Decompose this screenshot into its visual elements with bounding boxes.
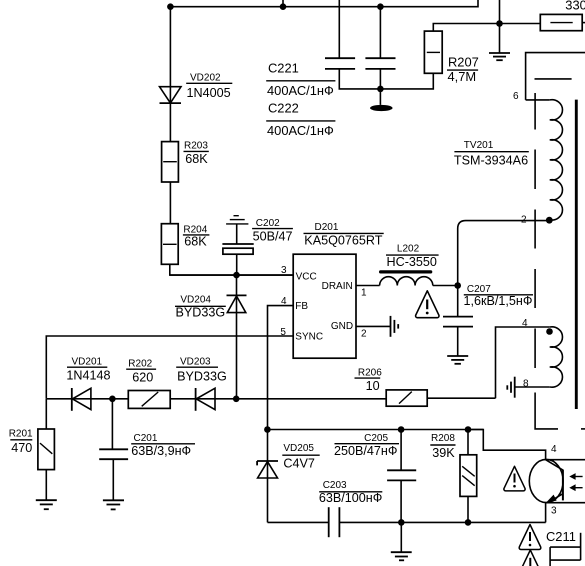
diode VD203 (196, 388, 215, 411)
svg-text:63В/3,9нФ: 63В/3,9нФ (131, 444, 191, 458)
svg-text:TSM-3934A6: TSM-3934A6 (454, 154, 528, 168)
wire C221 bottom to common (339, 69, 433, 89)
node junction dot top-left (167, 3, 174, 10)
svg-text:C201: C201 (134, 433, 158, 444)
svg-text:1N4005: 1N4005 (187, 86, 231, 100)
svg-text:3: 3 (551, 506, 557, 517)
transformer TV201 outline top (526, 53, 585, 100)
wire pin 8 (515, 386, 550, 388)
svg-text:R208: R208 (431, 433, 455, 444)
wire pin 6 (526, 99, 550, 101)
IC D201 box (293, 254, 356, 358)
capacitor C202 electrolytic (222, 244, 253, 254)
node primary dot pin2 (546, 217, 553, 224)
svg-text:VCC: VCC (296, 272, 317, 283)
wire R206 to pin4 (427, 397, 495, 399)
svg-text:1: 1 (361, 288, 367, 299)
ground symbol under C201 (103, 500, 124, 509)
node junction dot x=380 (377, 3, 384, 10)
svg-text:L202: L202 (397, 243, 420, 254)
wire FB pin4 (268, 306, 294, 430)
transformer inner line (535, 78, 572, 80)
capacitor C205 (387, 470, 416, 480)
wire pin1 DRAIN to L202 (356, 285, 380, 287)
svg-text:1N4148: 1N4148 (66, 369, 110, 383)
svg-text:C222: C222 (268, 101, 299, 116)
ground symbol under R201 (36, 500, 57, 509)
wire R201 to ground (45, 470, 47, 501)
ground blob hot (370, 105, 393, 111)
resistor R202 (128, 391, 170, 409)
ground symbol top-right (489, 53, 510, 60)
svg-text:C4V7: C4V7 (283, 456, 315, 470)
svg-text:BYD33G: BYD33G (177, 369, 227, 383)
svg-text:R202: R202 (128, 358, 152, 369)
wire opto collector feed (468, 430, 546, 460)
chassis symbol at GND pin (391, 316, 399, 337)
wire 330 to right edge (582, 22, 585, 24)
wire C201 to ground (112, 459, 114, 500)
wire collector line to right edge (546, 459, 585, 461)
node junction dot C205 bottom (398, 519, 405, 526)
svg-text:VD205: VD205 (283, 443, 314, 454)
transistor opto phototransistor circle (529, 459, 563, 502)
diode VD202 (160, 87, 182, 103)
svg-text:VD201: VD201 (72, 357, 103, 368)
resistor R203 (162, 142, 179, 182)
resistor R208 (460, 455, 477, 497)
ground symbol bottom (391, 552, 412, 560)
svg-text:250В/47нФ: 250В/47нФ (334, 444, 397, 458)
wire stub up at x=283 (282, 0, 284, 7)
wire C207 to ground (457, 327, 459, 356)
svg-text:R206: R206 (358, 367, 382, 378)
light arrow 1 (569, 473, 582, 480)
wire upper rail (267, 429, 483, 431)
wire VCC pin3 (170, 274, 293, 276)
wire emitter down (545, 503, 547, 523)
wire C205 bottom (400, 480, 402, 522)
svg-text:R201: R201 (9, 428, 33, 439)
wire SYNC pin5 (46, 336, 293, 399)
wire C222 top (379, 7, 381, 59)
transformer TV201 primary winding (550, 100, 563, 220)
svg-text:4,7M: 4,7M (448, 69, 477, 84)
wire right edge stub (581, 428, 585, 430)
svg-text:R203: R203 (184, 141, 208, 152)
resistor R206 (386, 390, 427, 406)
resistor R201 (38, 429, 55, 470)
svg-text:TV201: TV201 (464, 140, 494, 151)
wire pin 4 (496, 327, 550, 398)
wire emitter to right edge (546, 502, 585, 504)
svg-text:C221: C221 (268, 61, 299, 76)
wire R203 to R204 (169, 182, 171, 224)
resistor 330 (540, 14, 582, 30)
wire lower rail to C203 (268, 521, 329, 523)
wire bottom rail left (46, 398, 128, 400)
wire pin 2 (458, 221, 550, 286)
node junction dot VD205 top (264, 426, 271, 433)
wire R208 top (467, 430, 469, 455)
capacitor C211 outline (550, 533, 581, 566)
opto collector slant (546, 460, 563, 470)
transformer core dashed line (534, 93, 536, 368)
svg-text:10: 10 (366, 379, 380, 393)
svg-text:BYD33G: BYD33G (176, 306, 226, 320)
svg-text:50B/47: 50B/47 (253, 230, 293, 244)
warning triangle bottom 2 (519, 550, 541, 566)
resistor R207 (424, 31, 442, 73)
svg-text:68K: 68K (184, 234, 207, 248)
node junction dot FB rail (233, 396, 240, 403)
resistor R204 (161, 224, 178, 265)
wire core bottom L (535, 393, 558, 429)
svg-text:2: 2 (361, 328, 367, 339)
wire top rail (170, 0, 478, 7)
wire GND pin2 (356, 325, 391, 327)
svg-text:39K: 39K (432, 446, 455, 460)
warning triangle near L202 (416, 291, 439, 318)
svg-text:C202: C202 (256, 218, 280, 229)
svg-text:SYNC: SYNC (295, 331, 323, 342)
light arrow 2 (569, 484, 582, 491)
svg-text:FB: FB (295, 301, 308, 312)
capacitor C207 (443, 317, 473, 327)
wire C202 top (236, 224, 238, 244)
capacitor C203 (329, 507, 340, 537)
svg-text:400АС/1нФ: 400АС/1нФ (267, 83, 334, 98)
wire R208 bottom (467, 496, 469, 522)
wire C201 drop (111, 399, 113, 450)
svg-text:R207: R207 (448, 54, 479, 69)
transformer TV201 secondary winding (550, 327, 563, 387)
capacitor C201 (99, 449, 128, 459)
svg-text:VD204: VD204 (180, 295, 211, 306)
svg-text:KA5Q0765RT: KA5Q0765RT (304, 233, 382, 247)
svg-text:3: 3 (281, 265, 287, 276)
warning triangle bottom 1 (519, 525, 541, 550)
svg-text:DRAIN: DRAIN (322, 281, 353, 292)
wire junction down to ground (499, 24, 501, 54)
svg-text:68K: 68K (185, 152, 208, 166)
wire node to C207 (457, 286, 459, 317)
node secondary polarity dot (546, 328, 553, 335)
svg-text:D201: D201 (315, 222, 339, 233)
wire C221 vertical (338, 0, 340, 58)
svg-text:6: 6 (513, 91, 519, 102)
chassis marks above C202 (226, 216, 248, 224)
svg-text:VD203: VD203 (180, 357, 211, 368)
node junction dot x=283 (280, 3, 287, 10)
svg-text:HC-3550: HC-3550 (387, 255, 437, 269)
wire VD204 branch (236, 275, 238, 399)
node junction dot VCC rail (233, 272, 240, 279)
node junction dot R208 bottom (465, 519, 472, 526)
svg-text:VD202: VD202 (190, 73, 221, 84)
node junction dot C22x common (377, 86, 384, 93)
inductor L202 (380, 277, 433, 286)
wire to bottom ground (400, 522, 402, 552)
wire C205 top (400, 430, 402, 471)
svg-text:4: 4 (551, 444, 557, 455)
ground symbol under C207 (447, 356, 468, 364)
svg-text:63В/100нФ: 63В/100нФ (319, 491, 382, 505)
svg-text:470: 470 (11, 441, 32, 455)
capacitor C221 (325, 58, 355, 69)
wire VD205 top (267, 430, 269, 523)
diode VD205 zener (257, 461, 278, 478)
opto base bar (562, 470, 564, 501)
wire L202 to node (433, 285, 458, 287)
node junction dot drain net (454, 282, 461, 289)
transformer screen thick line (575, 100, 578, 409)
node junction dot C201 tap (109, 396, 116, 403)
capacitor C222 (365, 58, 395, 69)
node junction dot C205 top (398, 426, 405, 433)
svg-text:330: 330 (565, 0, 585, 12)
L202 thick bar (379, 270, 432, 273)
wire R207 top (433, 24, 540, 32)
wire C202 bottom (236, 254, 238, 275)
svg-text:400АС/1нФ: 400АС/1нФ (267, 123, 334, 138)
node junction dot x=499 (496, 20, 503, 27)
wire lower rail right (339, 521, 545, 523)
diode VD201 (72, 388, 91, 411)
opto emitter slant with arrow (546, 494, 563, 503)
wire up from junction (499, 0, 501, 24)
wire R201 drop (45, 399, 47, 429)
svg-text:GND: GND (331, 321, 353, 332)
svg-text:620: 620 (132, 370, 153, 384)
diode VD204 (227, 295, 247, 312)
wire C222 bottom (379, 69, 381, 105)
node junction dot R208 top (465, 426, 472, 433)
wire R202 to VD203 (170, 398, 386, 400)
wire R204 to VCC rail corner (170, 264, 293, 275)
chassis symbol at pin 8 (507, 377, 514, 398)
wire VD202 branch upper (169, 7, 171, 142)
svg-text:C203: C203 (323, 480, 347, 491)
svg-text:C205: C205 (364, 433, 388, 444)
svg-text:C211: C211 (546, 529, 576, 544)
warning triangle near opto (504, 466, 525, 491)
svg-text:1,6кВ/1,5нФ: 1,6кВ/1,5нФ (464, 294, 533, 308)
